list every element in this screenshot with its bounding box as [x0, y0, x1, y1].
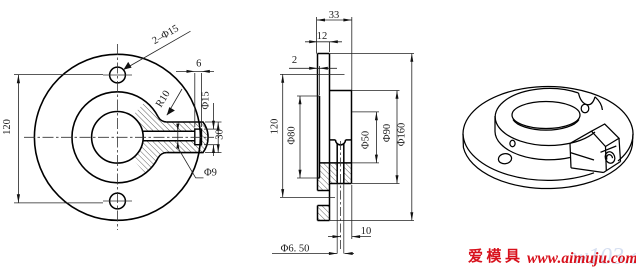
svg-text:Φ6. 50: Φ6. 50 — [281, 244, 310, 255]
lug front face left edge — [570, 143, 571, 168]
bolt hole bottom — [110, 193, 126, 209]
phi80 — [299, 96, 302, 104]
svg-text:30: 30 — [215, 129, 226, 140]
leader 2-phi15 — [123, 31, 190, 69]
notch on boss top-right — [579, 93, 596, 105]
12 outside — [309, 40, 317, 43]
phi90 — [396, 91, 399, 99]
lug front/end face boundary — [605, 147, 608, 171]
centerlines — [24, 44, 214, 230]
bore inner wall arc — [513, 120, 579, 131]
lug end hole — [604, 151, 617, 165]
10 outside — [333, 235, 341, 238]
phi90 — [396, 91, 398, 184]
boss bottom front arc — [495, 132, 570, 160]
svg-text:R10: R10 — [154, 89, 173, 110]
phi6.50 — [272, 253, 337, 255]
phi80 — [299, 96, 301, 178]
lug end hole inner — [607, 155, 613, 160]
boss left wall — [494, 116, 496, 132]
bolt hole ellipse left — [498, 153, 512, 165]
12 — [305, 41, 342, 43]
dim 6 top right — [176, 70, 214, 72]
arrow R10 leader — [167, 107, 175, 115]
boss outer top ellipse (gaps at notch and lug) — [495, 88, 602, 145]
arrows 30 (inside) — [217, 122, 220, 130]
bore rim ellipse — [512, 102, 580, 129]
phi50 — [375, 112, 377, 163]
dim 120 left — [17, 75, 19, 203]
slit line on front face — [571, 153, 595, 160]
white slot band (phi9 hole) — [138, 131, 195, 141]
arrows 6 (outside) — [187, 70, 195, 73]
svg-text:Φ15: Φ15 — [201, 91, 212, 109]
phi160 — [411, 54, 413, 221]
120 — [281, 74, 284, 82]
2 outside — [309, 67, 317, 70]
10 — [328, 236, 341, 238]
phi160 — [410, 54, 413, 62]
svg-text:Φ50: Φ50 — [361, 131, 372, 149]
2 — [289, 67, 337, 69]
arrows 120 — [17, 75, 20, 84]
base plate bottom edge — [463, 140, 632, 188]
svg-text:120: 120 — [2, 119, 13, 135]
slit line on end face — [601, 146, 617, 152]
bolt hole top — [110, 67, 126, 83]
bore circle — [92, 112, 144, 164]
small hole on boss front wall — [510, 140, 515, 146]
33 — [317, 19, 352, 21]
arrows phi9 (outside) — [176, 124, 179, 132]
leader R10 — [167, 89, 182, 115]
svg-text:6: 6 — [196, 59, 201, 70]
svg-text:12: 12 — [317, 31, 328, 42]
120 — [282, 74, 284, 197]
lug end face bottom edge — [604, 162, 621, 173]
svg-text:10: 10 — [361, 226, 372, 237]
fillet R10 top — [158, 117, 167, 122]
phi50 — [375, 112, 378, 120]
lug end face right edge — [619, 138, 621, 161]
svg-text:Φ90: Φ90 — [382, 124, 393, 142]
svg-text:2–Φ15: 2–Φ15 — [150, 23, 180, 47]
33 — [317, 19, 325, 22]
part outlines — [318, 54, 352, 221]
dim phi15 right — [213, 103, 215, 129]
base side closing left — [462, 134, 464, 148]
lug front face bottom edge — [571, 168, 604, 173]
white counterbore — [195, 129, 202, 145]
svg-text:120: 120 — [270, 119, 281, 135]
svg-text:Φ160: Φ160 — [397, 123, 408, 146]
svg-text:2: 2 — [292, 55, 297, 66]
svg-text:33: 33 — [329, 10, 340, 21]
outer circle — [34, 54, 200, 220]
arrow 2-phi15 leader — [123, 62, 131, 70]
boss circle (with gap at lug) — [72, 92, 158, 183]
hatched broken-out section of lug — [132, 101, 208, 174]
hatch blocks — [318, 163, 352, 221]
thin continuation of hole edges — [337, 141, 344, 254]
small hole in notch (clamp screw) — [581, 104, 589, 113]
lug top face — [592, 124, 620, 147]
lug outline — [167, 122, 208, 153]
phi6.50 outside — [329, 252, 337, 255]
phi9 hole lines — [143, 130, 195, 132]
base side closing right — [632, 134, 634, 140]
svg-text:Φ80: Φ80 — [287, 126, 298, 144]
arrows phi15 (outside, vertical) — [212, 121, 215, 129]
fillet R10 bottom — [158, 153, 167, 158]
counterbore rect — [195, 129, 202, 145]
svg-text:www.aimuju.com: www.aimuju.com — [527, 250, 636, 267]
dim phi9 — [177, 124, 179, 148]
svg-text:Φ9: Φ9 — [204, 168, 217, 179]
base plate top face ellipse (gap where lug covers) — [463, 87, 633, 181]
dim 30 right — [217, 122, 219, 153]
lug front face top edge (blend into boss) — [570, 131, 592, 143]
svg-text:爱模具: 爱模具 — [468, 247, 524, 265]
